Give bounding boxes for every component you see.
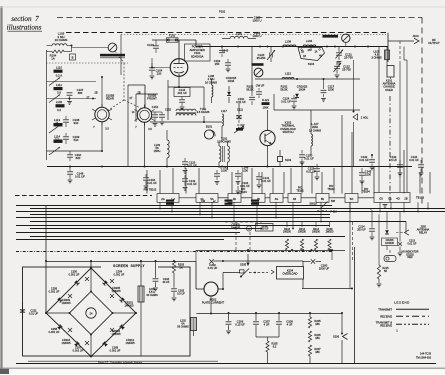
connector TB102 block B — [196, 194, 218, 203]
wire main plate line — [196, 46, 388, 48]
wire right drop cluster — [350, 202, 390, 288]
svg-text:1000 U: 1000 U — [252, 34, 261, 38]
resistor R121 — [262, 98, 270, 110]
capacitor C145b — [359, 168, 372, 184]
connector block 5D — [316, 194, 329, 203]
svg-text:illustrations: illustrations — [7, 24, 42, 32]
connector P/O TB101 label — [296, 187, 304, 193]
node at L103 output — [71, 45, 73, 52]
variable arrow 4 — [49, 147, 60, 155]
svg-text:1N4005: 1N4005 — [385, 242, 394, 245]
switch S205 — [240, 263, 269, 278]
svg-text:0.001 UF: 0.001 UF — [69, 273, 80, 277]
svg-text:56 OHMS: 56 OHMS — [177, 325, 189, 329]
knob TUNING — [252, 63, 264, 77]
capacitor C134 — [409, 155, 424, 176]
svg-text:0.15 UF: 0.15 UF — [235, 323, 245, 327]
svg-text:5D: 5D — [321, 197, 324, 201]
inductor L114 — [54, 135, 63, 143]
svg-text:TRANSMIT: TRANSMIT — [378, 307, 392, 311]
svg-text:2T: 2T — [130, 97, 133, 100]
wire comb above connectors — [147, 115, 430, 194]
capacitor C203 — [171, 273, 185, 301]
svg-text:O3: O3 — [379, 197, 383, 201]
svg-text:FRONT: FRONT — [147, 97, 157, 101]
svg-text:1N4005: 1N4005 — [111, 332, 121, 336]
svg-text:S206: S206 — [333, 335, 340, 339]
wire dashed CR209 area — [225, 222, 262, 252]
connector TB103 block — [374, 193, 410, 203]
svg-text:3.5: 3.5 — [105, 128, 109, 131]
svg-text:18K: 18K — [315, 322, 320, 326]
wire wafer feeds — [101, 76, 158, 167]
svg-text:F101: F101 — [169, 34, 176, 38]
title section 7 — [11, 15, 39, 23]
svg-text:0.01 UF: 0.01 UF — [359, 158, 369, 162]
capacitor C117 — [321, 79, 335, 101]
capacitor C143 — [214, 166, 228, 185]
resistor R229 — [326, 228, 335, 250]
svg-text:P102: P102 — [219, 10, 226, 14]
wire wafer B drop — [144, 122, 146, 166]
svg-text:C103: C103 — [147, 43, 154, 47]
svg-text:L104: L104 — [306, 39, 313, 43]
wire comb below connectors — [159, 202, 429, 229]
svg-text:1N34: 1N34 — [299, 88, 306, 92]
capacitor C108 — [63, 116, 80, 127]
legend note — [396, 329, 398, 333]
svg-text:2B: 2B — [301, 52, 304, 54]
fuse F101 — [167, 34, 179, 43]
wire junction row — [47, 150, 104, 152]
wire long mid line — [47, 166, 412, 168]
svg-text:TB103: TB103 — [416, 196, 424, 200]
switch S103B REAR — [92, 104, 112, 125]
inductor L103 — [47, 32, 72, 46]
svg-text:L112: L112 — [285, 72, 291, 76]
resistor R212 — [298, 228, 307, 250]
wire dashed right boundary — [421, 18, 423, 205]
svg-text:1000 U: 1000 U — [252, 19, 261, 23]
resistor R213 — [283, 228, 292, 250]
svg-text:0.2 A: 0.2 A — [56, 74, 63, 78]
svg-text:1N34: 1N34 — [228, 79, 235, 83]
svg-text:P/O TB102: P/O TB102 — [144, 188, 157, 192]
svg-text:4 UF: 4 UF — [264, 323, 270, 327]
svg-text:35-250: 35-250 — [257, 56, 266, 60]
capacitor C141 — [256, 172, 271, 188]
capacitor C146 — [67, 166, 85, 183]
svg-text:1500: 1500 — [365, 173, 371, 177]
node P CM — [317, 210, 337, 214]
resistor R102 — [280, 85, 287, 92]
svg-text:3.5 OHMS: 3.5 OHMS — [196, 110, 209, 114]
svg-text:0.01 UF: 0.01 UF — [187, 182, 197, 186]
variable arrow 3 — [49, 125, 60, 133]
inductor L117 — [221, 109, 227, 142]
transformer T102 — [217, 137, 231, 171]
svg-text:2A: 2A — [315, 51, 318, 54]
connector block 4D — [228, 194, 241, 203]
svg-text:0.01 UF: 0.01 UF — [208, 266, 218, 270]
capacitor C124 — [281, 95, 297, 109]
svg-text:16 OHMS: 16 OHMS — [205, 80, 217, 84]
connector 2 HOLES — [353, 60, 369, 167]
inductor L105 — [371, 47, 389, 67]
svg-text:15PH: 15PH — [154, 149, 161, 153]
svg-text:0.01 UF: 0.01 UF — [261, 179, 271, 183]
capacitor C110a — [67, 151, 82, 161]
inductor L104 — [303, 39, 316, 47]
wire row 1 — [47, 81, 97, 83]
svg-text:S6010: S6010 — [309, 202, 317, 206]
svg-text:4A: 4A — [319, 55, 322, 58]
caption underline — [28, 361, 218, 364]
page bottom-left mark — [0, 369, 445, 375]
diode CR204 — [57, 325, 71, 346]
switch S206 — [333, 313, 348, 364]
wire dashed second top line — [66, 33, 386, 35]
svg-text:0.001 UF: 0.001 UF — [49, 290, 60, 294]
wire meter feed — [196, 261, 204, 280]
inductor L101 — [222, 32, 256, 39]
svg-text:OUTPUT: OUTPUT — [428, 41, 440, 45]
wire H feed DS202 — [302, 288, 353, 290]
resistor R102b — [246, 85, 253, 92]
svg-text:2B: 2B — [404, 197, 407, 201]
svg-text:1A: 1A — [51, 57, 55, 61]
resistor R214 — [312, 228, 321, 250]
wire grid line — [255, 78, 360, 80]
svg-text:1N4005: 1N4005 — [61, 341, 71, 345]
svg-text:5A: 5A — [179, 266, 182, 270]
svg-text:2B: 2B — [94, 92, 97, 95]
svg-text:0.001 UF: 0.001 UF — [114, 273, 125, 277]
svg-text:3 OHMS: 3 OHMS — [371, 56, 382, 60]
resistor R104 — [47, 50, 72, 61]
svg-text:1W100: 1W100 — [312, 231, 321, 234]
capacitor C264 — [110, 270, 125, 284]
svg-text:0.6: 0.6 — [57, 91, 61, 95]
pin 14 front — [132, 111, 135, 114]
wire arrow down — [246, 254, 249, 266]
capacitor C109 — [63, 133, 80, 144]
schematic bottom rule — [16, 363, 436, 365]
svg-text:L102: L102 — [56, 100, 63, 104]
wire diamond feed — [90, 261, 92, 268]
svg-text:1N4005: 1N4005 — [125, 341, 135, 345]
wire dashed relay drop — [389, 96, 391, 203]
svg-text:RELAY: RELAY — [419, 231, 428, 235]
diode CR108 — [295, 79, 307, 98]
svg-text:4C: 4C — [213, 200, 216, 203]
svg-text:4 UF: 4 UF — [287, 323, 293, 327]
diode CR203 — [49, 287, 63, 303]
connector P/O TB102b label — [327, 185, 335, 191]
capacitor C221 — [20, 303, 39, 319]
pin 7 rear — [93, 126, 95, 129]
svg-text:10 OHMS: 10 OHMS — [55, 38, 68, 42]
lamp DS202 — [384, 251, 419, 262]
inductor L111 — [54, 83, 63, 95]
pin 2B rear — [94, 92, 97, 95]
capacitor C268 — [110, 346, 121, 353]
relay K101 — [383, 66, 396, 92]
variable arrow 2 — [49, 95, 60, 103]
svg-text:4D: 4D — [233, 197, 236, 201]
wire right box edge — [354, 247, 356, 364]
diode CR202 — [103, 329, 122, 347]
transformer T101 — [176, 107, 210, 116]
capacitor C103 — [147, 40, 159, 53]
label K102 — [280, 121, 296, 135]
wire right enclosure — [387, 33, 389, 62]
inductor L109 — [283, 40, 296, 47]
svg-text:0.01 UF: 0.01 UF — [147, 181, 157, 185]
resistor R203 — [172, 261, 184, 273]
wire dashed TB feed — [15, 195, 152, 197]
capacitor C213 — [398, 211, 417, 256]
terminal B — [70, 54, 76, 60]
svg-text:0.001 UF: 0.001 UF — [110, 349, 121, 353]
wire switch gang link — [107, 51, 141, 111]
wire left column bus — [46, 50, 48, 160]
connector block 5O — [345, 194, 358, 203]
connector P/O TB104b label — [362, 188, 370, 194]
svg-text:1N4005: 1N4005 — [61, 301, 71, 305]
capacitor C152 — [152, 109, 172, 125]
relay K204 — [271, 267, 304, 280]
svg-text:B: B — [72, 56, 74, 60]
capacitor C164 — [143, 174, 157, 189]
switch S103c — [278, 150, 292, 167]
svg-text:L110: L110 — [56, 66, 62, 70]
diode CR209 — [61, 280, 79, 305]
capacitor C116 label — [252, 31, 261, 38]
svg-text:18K: 18K — [315, 350, 320, 354]
switch BANDSWITCH — [72, 43, 126, 58]
part number — [416, 353, 432, 360]
capacitor C207 — [253, 313, 270, 337]
svg-text:C152: C152 — [165, 109, 172, 112]
pin 7 front — [135, 126, 137, 129]
svg-text:0.5 UF: 0.5 UF — [389, 158, 397, 162]
wire bus harness — [16, 206, 445, 240]
wire mid-right rail — [196, 249, 345, 261]
svg-text:0.01 UF: 0.01 UF — [408, 242, 417, 245]
svg-text:CW UF: CW UF — [256, 84, 265, 88]
svg-text:1B: 1B — [303, 56, 306, 58]
switch S103B REAR label — [106, 94, 115, 101]
capacitor C151 — [152, 105, 159, 126]
inductor L202 — [177, 313, 196, 336]
box SCREEN SUPPLY — [23, 263, 191, 357]
meter LOADING — [323, 34, 350, 47]
capacitor C150 — [299, 150, 314, 165]
diode CR101B — [226, 76, 237, 103]
svg-text:2T: 2T — [87, 97, 90, 100]
connector block 2D — [252, 194, 265, 203]
switch S103B FRONT — [135, 105, 155, 126]
svg-text:144-7C33: 144-7C33 — [420, 353, 432, 356]
wire screen top link — [46, 260, 196, 262]
svg-text:56.5K: 56.5K — [280, 88, 287, 92]
connector P/O TB104 label — [239, 188, 247, 194]
svg-text:510: 510 — [74, 138, 79, 142]
svg-text:REAR: REAR — [106, 97, 114, 101]
meter center — [86, 308, 96, 318]
inductor L102 — [56, 100, 65, 112]
diamond spokes — [45, 267, 137, 358]
capacitor C208 — [276, 313, 293, 337]
connector P/O TB102 label — [144, 188, 157, 192]
inductor L103b — [154, 130, 170, 167]
resistor R215 — [377, 265, 390, 287]
pin 3.5 front — [148, 128, 152, 131]
svg-text:PLATE CURRENT: PLATE CURRENT — [202, 301, 225, 305]
capacitor C260 — [303, 259, 330, 270]
wire right verticals — [379, 47, 407, 193]
svg-text:0.01 UF: 0.01 UF — [281, 100, 291, 104]
svg-text:6DX000A: 6DX000A — [191, 55, 203, 59]
capacitor C131 — [236, 181, 251, 194]
op-amp V101 tube — [170, 59, 188, 77]
legend box title — [394, 301, 410, 305]
svg-text:RECEIVE: RECEIVE — [380, 314, 392, 318]
svg-text:0.001 UF: 0.001 UF — [73, 349, 84, 353]
inductor L106 — [205, 74, 217, 103]
variable arrow 1 — [49, 78, 60, 86]
svg-text:section 7: section 7 — [11, 15, 39, 23]
meter M202 PLATE CURRENT — [196, 273, 240, 305]
svg-text:1500: 1500 — [328, 88, 335, 92]
rectifier diamond outer — [46, 268, 136, 357]
capacitor C219 — [256, 224, 274, 232]
svg-text:40 UF: 40 UF — [162, 280, 169, 284]
inductor L203 — [138, 261, 158, 356]
svg-text:1N4005: 1N4005 — [111, 289, 121, 293]
transistor K102 thermal switch — [260, 110, 275, 167]
svg-text:4B: 4B — [293, 197, 296, 201]
blower B101 — [204, 125, 215, 140]
svg-text:SCREEN SUPPLY: SCREEN SUPPLY — [113, 264, 145, 268]
node dots mid line — [101, 166, 269, 168]
svg-text:0.01 UF: 0.01 UF — [187, 164, 197, 168]
svg-text:0.5 UF: 0.5 UF — [177, 292, 185, 296]
svg-text:0.01 UF: 0.01 UF — [409, 158, 419, 162]
svg-text:R-121: R-121 — [262, 98, 270, 102]
diode CR201 — [120, 297, 135, 307]
svg-text:TB101: TB101 — [296, 189, 304, 192]
svg-text:40 OHMS: 40 OHMS — [146, 293, 158, 297]
svg-text:2000 UF: 2000 UF — [319, 267, 330, 271]
capacitor C107 — [67, 88, 84, 105]
diode CR205 — [103, 280, 122, 293]
pin 2B front — [137, 92, 140, 95]
wire row 2 — [47, 98, 97, 100]
connector TB103 label — [416, 196, 424, 200]
svg-text:L109: L109 — [285, 40, 292, 44]
inductor L112 — [282, 72, 294, 80]
svg-text:1N4005: 1N4005 — [124, 304, 134, 308]
svg-text:4O: 4O — [396, 197, 399, 201]
pin 3.5 rear — [105, 128, 109, 131]
svg-text:1000: 1000 — [242, 169, 248, 173]
connector J103 — [388, 34, 440, 45]
svg-text:0.001 UF: 0.001 UF — [49, 330, 60, 334]
svg-text:0.01 UF: 0.01 UF — [306, 170, 316, 174]
diode CR210 — [120, 325, 136, 346]
wire plate feed — [152, 40, 196, 59]
rectifier diamond inner — [70, 292, 113, 335]
svg-text:568: 568 — [331, 200, 336, 203]
svg-text:TB102: TB102 — [327, 188, 335, 191]
capacitor C112 — [234, 123, 245, 133]
svg-text:0.2: 0.2 — [57, 108, 61, 112]
svg-text:1000: 1000 — [221, 169, 227, 173]
svg-text:910: 910 — [74, 121, 79, 125]
capacitor C132 — [359, 154, 375, 170]
node dots on plate line — [221, 46, 369, 48]
wire dashed inner — [399, 41, 401, 193]
svg-text:25-750: 25-750 — [342, 68, 351, 72]
capacitor marks — [68, 294, 114, 332]
inductor L113 — [54, 118, 63, 126]
svg-text:RECEIVE: RECEIVE — [380, 323, 392, 327]
capacitor C111 — [236, 108, 243, 124]
wire resistor row top — [287, 222, 330, 228]
svg-text:S104: S104 — [308, 62, 315, 66]
capacitor C250 — [69, 270, 89, 282]
page top edge — [0, 6, 445, 8]
resistor R205 column — [308, 313, 321, 364]
connector P102 label — [219, 10, 226, 14]
capacitor C120 — [257, 47, 275, 63]
svg-text:L101: L101 — [236, 32, 243, 36]
svg-text:18K: 18K — [315, 336, 320, 340]
terminal P108 tags — [166, 200, 259, 205]
switch S103B FRONT label — [147, 94, 157, 101]
capacitor C142 — [182, 175, 197, 190]
inductor L110 — [54, 66, 63, 78]
resistor R205b — [256, 337, 279, 364]
svg-text:L117: L117 — [221, 109, 227, 113]
capacitor C206 — [226, 313, 246, 334]
wire C202 line — [196, 260, 303, 289]
svg-text:C151: C151 — [152, 105, 159, 109]
connector J205 — [396, 225, 429, 236]
svg-text:S205: S205 — [240, 263, 247, 267]
legend transmit-receive — [376, 320, 429, 327]
capacitor C144 — [174, 88, 190, 110]
capacitor C133 — [389, 155, 403, 176]
wire connector links — [179, 197, 374, 199]
svg-text:250 UF: 250 UF — [357, 228, 366, 232]
svg-text:LEGEND: LEGEND — [394, 301, 410, 305]
page bottom rule — [0, 367, 445, 369]
svg-text:56.5K: 56.5K — [246, 88, 253, 92]
svg-text:100K: 100K — [262, 106, 268, 110]
wire V101 grid — [151, 58, 170, 69]
svg-text:25-750: 25-750 — [344, 56, 353, 60]
connector block 4G — [270, 194, 283, 203]
svg-text:5O: 5O — [350, 197, 353, 201]
wire tube cathode — [168, 76, 204, 120]
svg-text:C111: C111 — [237, 108, 244, 112]
svg-text:8.2: 8.2 — [273, 345, 277, 349]
svg-text:SWITCH: SWITCH — [282, 130, 293, 134]
capacitor C122 — [334, 62, 352, 78]
